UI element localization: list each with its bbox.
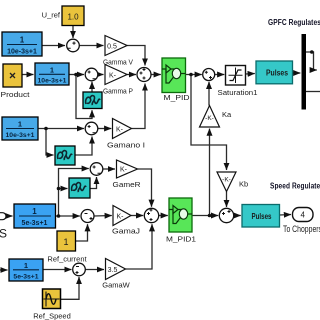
measurement squiggle A <box>83 92 102 109</box>
svg-text:-K-: -K- <box>222 177 231 184</box>
sum S6 <box>81 210 94 223</box>
constant 1 (Ref_current) <box>47 231 87 264</box>
svg-text:Ref_current: Ref_current <box>47 255 87 264</box>
wire branch M_PID1 out up to Ka <box>209 129 211 216</box>
wire U_ref to S1 <box>72 26 74 39</box>
svg-text:1: 1 <box>50 66 54 75</box>
sum S4 <box>85 122 98 135</box>
sum S7 <box>144 208 158 222</box>
svg-text:M_PID1: M_PID1 <box>166 235 196 244</box>
svg-text:Gamano I: Gamano I <box>107 141 145 150</box>
output port 4 To Choppers <box>283 208 320 235</box>
wire S10 to GamaW <box>85 269 104 271</box>
source Ref_Speed <box>33 289 71 320</box>
mux bar <box>302 34 307 110</box>
svg-text:Ka: Ka <box>222 110 232 119</box>
wire const1 to S6 <box>76 224 88 241</box>
wire squiggle C to S5 <box>90 177 97 189</box>
svg-text:10e-3s+1: 10e-3s+1 <box>6 132 35 139</box>
wire S2 to GammaP <box>98 74 104 76</box>
svg-text:Kb: Kb <box>239 180 248 189</box>
wire S9 to Saturation1 <box>215 74 225 76</box>
wire GamaW up to S7 bottom <box>126 224 153 269</box>
wire Product to TF2 <box>22 74 34 76</box>
gain GamaI <box>107 119 145 150</box>
gain GamaJ <box>112 206 140 236</box>
gain Kb (points down) <box>217 172 248 192</box>
svg-text:Gamma P: Gamma P <box>103 87 133 96</box>
wire M_PID to S9 <box>186 74 202 76</box>
sum S2 <box>85 68 98 81</box>
saturation block Saturation1 <box>218 66 258 98</box>
input port oval <box>0 213 6 220</box>
svg-text:K-: K- <box>116 127 124 134</box>
wire branch TF3 out down to squiggle B <box>46 129 54 156</box>
wire mux aux loop <box>306 52 317 70</box>
wire Ref_Speed to S10 <box>61 277 80 299</box>
svg-text:1: 1 <box>32 207 37 216</box>
wire S6 to GamaJ <box>94 215 112 218</box>
wire Saturation1 to Pulses1 <box>246 73 255 76</box>
transfer function TF2 <box>35 63 69 85</box>
svg-text:10e-3s+1: 10e-3s+1 <box>7 49 37 56</box>
wire Pulses2 to port <box>280 214 292 217</box>
gain Ka (points up) <box>200 106 233 128</box>
wire GammaV to S3 top <box>127 46 145 66</box>
constant U_ref <box>42 6 84 26</box>
wire branch to squiggle C <box>59 188 68 190</box>
svg-text:5e-3s+1: 5e-3s+1 <box>13 274 38 281</box>
wire stub to TF5 <box>0 269 8 271</box>
product block <box>1 64 31 99</box>
svg-text:GamaW: GamaW <box>102 281 130 290</box>
wire input port to TF4 <box>7 215 13 217</box>
svg-text:Product: Product <box>1 90 31 99</box>
svg-text:1.0: 1.0 <box>67 13 79 22</box>
wire TF4 to S6 <box>56 215 80 217</box>
wire S5 to GameR <box>103 168 115 170</box>
wire GammaP to S3 <box>127 74 136 76</box>
sum S8 <box>219 208 233 222</box>
wire TF1 to S1 <box>42 45 65 47</box>
gain GamaW <box>102 259 130 290</box>
wire squiggle A to S2 <box>91 82 93 92</box>
svg-text:GamaJ: GamaJ <box>112 227 140 236</box>
svg-text:4: 4 <box>300 211 305 220</box>
svg-text:0.5: 0.5 <box>107 44 117 51</box>
wire branch TF4 out up to S5 <box>59 169 89 217</box>
svg-text:U_ref: U_ref <box>42 11 61 20</box>
wire S7 to M_PID1 <box>159 215 168 217</box>
measurement squiggle C <box>69 178 90 198</box>
svg-text:1: 1 <box>20 36 25 45</box>
wire Pulses1 to mux <box>293 72 301 74</box>
sum S5 <box>90 163 103 176</box>
svg-text:K-: K- <box>120 167 128 174</box>
svg-text:5e-3s+1: 5e-3s+1 <box>22 220 48 227</box>
sum S10 <box>73 263 86 276</box>
svg-text:GPFC Regulates: GPFC Regulates <box>268 18 320 27</box>
subsystem M_PID <box>162 58 190 102</box>
sum S9 <box>203 69 215 81</box>
wire S8 to Pulses2 <box>234 215 241 217</box>
gain GameR <box>113 160 142 189</box>
transfer function TF3 <box>2 117 38 140</box>
svg-text:S: S <box>0 227 7 241</box>
svg-text:K-: K- <box>109 73 117 80</box>
subsystem M_PID1 <box>166 198 196 244</box>
transfer function TF5 <box>9 259 43 281</box>
transfer function TF1 <box>2 32 42 56</box>
wire squiggle B to S4 <box>75 137 92 156</box>
svg-text:Ref_Speed: Ref_Speed <box>33 312 71 320</box>
svg-text:Pulses: Pulses <box>252 212 272 221</box>
sum S3 <box>137 68 151 82</box>
svg-text:-K-: -K- <box>205 115 214 122</box>
wire TF5 to S10 <box>43 269 72 271</box>
svg-text:Speed Regulates: Speed Regulates <box>270 182 320 191</box>
wire Ka to S9 bottom <box>208 82 210 106</box>
gain GammaP <box>103 65 133 96</box>
wire branch TF2 out down to squiggle A <box>76 75 92 119</box>
wire GamaI up to S3 bottom <box>132 84 146 129</box>
svg-text:M_PID: M_PID <box>164 93 191 102</box>
svg-text:10e-3s+1: 10e-3s+1 <box>38 78 67 85</box>
wire TF2 to S2 <box>69 74 84 76</box>
svg-text:Pulses: Pulses <box>266 69 288 78</box>
wire M_PID1 to S8 <box>192 215 218 217</box>
svg-text:K-: K- <box>117 214 125 221</box>
sum S1 <box>67 39 80 52</box>
transfer function TF4 <box>14 204 56 228</box>
subsystem Pulses2 <box>242 205 280 228</box>
svg-text:1: 1 <box>24 261 28 270</box>
gain GammaV <box>103 36 133 67</box>
wire branch M_PID out down to Kb <box>191 75 227 171</box>
measurement squiggle B <box>55 146 75 165</box>
svg-text:1: 1 <box>63 237 68 247</box>
wire Kb to S8 top <box>226 192 228 208</box>
wire TF3 to S4 <box>38 128 84 130</box>
wire mux output <box>306 91 320 93</box>
wire GameR down to S7 top <box>138 169 152 207</box>
svg-text:1: 1 <box>18 120 22 129</box>
wire S3 to M_PID <box>151 74 161 76</box>
wire S1 to GammaV <box>79 45 103 47</box>
wire GamaJ to S7 <box>131 215 143 217</box>
svg-text:Saturation1: Saturation1 <box>218 88 258 97</box>
svg-text:To Choppers: To Choppers <box>283 224 320 234</box>
svg-text:3.5: 3.5 <box>108 267 118 274</box>
svg-text:GameR: GameR <box>113 180 142 189</box>
wire S4 to GamaI <box>98 128 112 130</box>
subsystem Pulses1 <box>256 61 293 84</box>
